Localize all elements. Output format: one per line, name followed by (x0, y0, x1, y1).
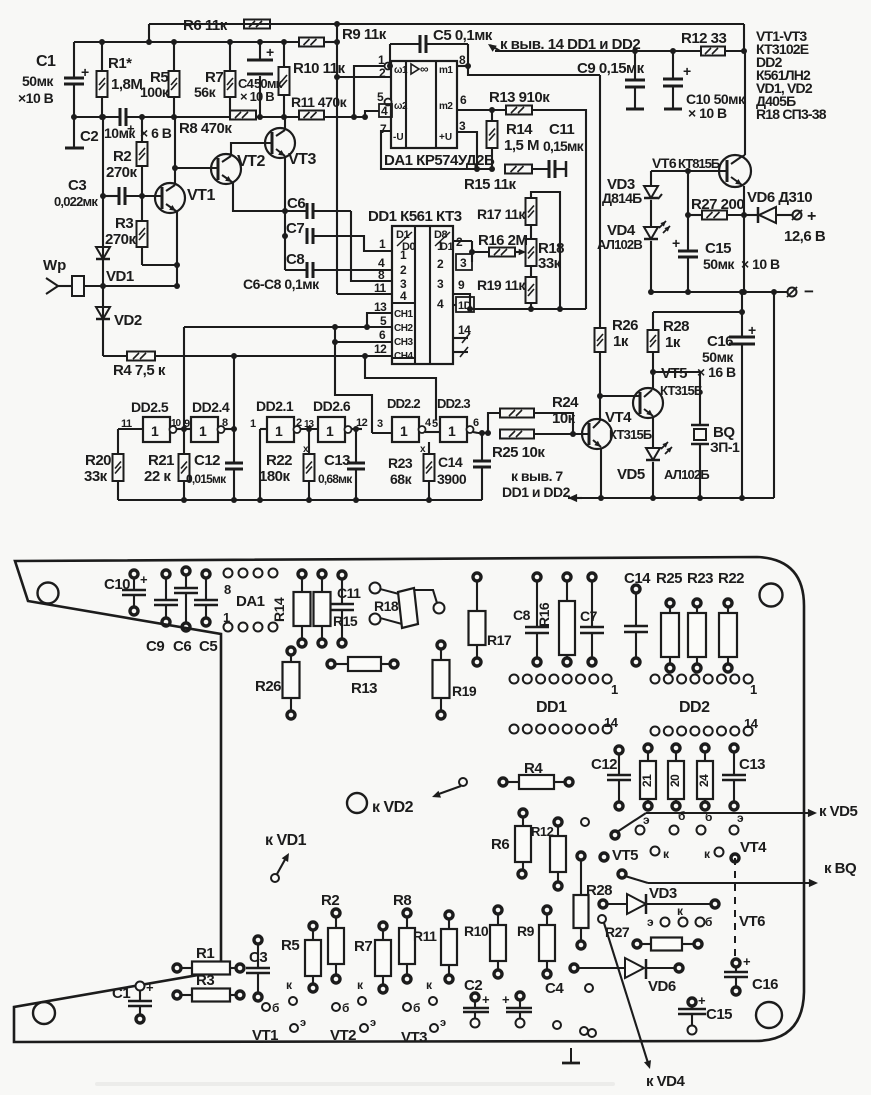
wire pin4 from rail3 (365, 111, 379, 117)
node rail/C12 (231, 497, 237, 503)
mounting hole bottom-right (756, 1002, 782, 1028)
node R28/BQ (650, 369, 656, 375)
node R1 bottom (99, 114, 105, 120)
svg-text:б: б (272, 1001, 279, 1015)
gate DD2.1 (267, 417, 294, 442)
wire gates 2.5-2.4 link (176, 428, 191, 430)
svg-text:0,68мк: 0,68мк (318, 472, 353, 486)
svg-text:R16 2М: R16 2М (478, 232, 528, 249)
pin 7 stub (453, 351, 468, 353)
resistor R28 (652, 312, 654, 330)
wire R17 top loop (531, 192, 560, 309)
node 1D line (467, 306, 473, 312)
wire gates 2.1-2.6 link (300, 428, 318, 430)
node C16 line/R28 (739, 309, 745, 315)
mounting hole top-left (38, 583, 59, 604)
node base/x688 (685, 168, 691, 174)
svg-text:C8: C8 (286, 251, 304, 268)
svg-text:КТ315Б: КТ315Б (609, 427, 652, 442)
node C14 top (479, 430, 485, 436)
node R10 top (281, 39, 287, 45)
svg-text:33к: 33к (538, 255, 562, 272)
svg-text:VD3: VD3 (649, 885, 677, 902)
resistor R24 (500, 409, 534, 418)
resistor R19 (526, 277, 537, 303)
svg-text:3: 3 (459, 119, 466, 133)
svg-text:1к: 1к (665, 334, 681, 351)
svg-text:3: 3 (377, 418, 383, 430)
svg-text:VT1: VT1 (187, 187, 215, 204)
svg-text:6: 6 (460, 93, 467, 107)
svg-text:13: 13 (374, 300, 387, 314)
node input/rail3 (100, 114, 106, 120)
node VT3 emitter/C6 (282, 208, 288, 214)
gate DD2.4 (191, 417, 218, 442)
svg-text:1: 1 (199, 423, 207, 439)
svg-text:к VD4: к VD4 (646, 1073, 686, 1090)
capacitor C14 (481, 433, 483, 461)
svg-text:+: + (146, 980, 154, 995)
svg-text:э: э (370, 1017, 376, 1029)
svg-text:R18 СП3-38: R18 СП3-38 (756, 106, 827, 122)
svg-text:C8: C8 (513, 607, 531, 623)
node DD2.6 out (353, 426, 359, 432)
PCB resistor R14 (298, 570, 306, 578)
svg-text:C12: C12 (194, 452, 220, 469)
svg-text:180к: 180к (259, 468, 291, 485)
node rail/BQ (697, 495, 703, 501)
svg-text:C13: C13 (324, 452, 350, 469)
svg-text:ЗП-1: ЗП-1 (710, 439, 740, 455)
svg-text:DD1: DD1 (536, 699, 567, 716)
svg-text:э: э (643, 813, 650, 827)
svg-text:C2: C2 (464, 977, 482, 994)
node rail1/x337 (334, 21, 340, 27)
capacitor C3 (118, 187, 121, 205)
PCB dashed collector line VT6 (734, 858, 736, 957)
svg-text:C11: C11 (549, 121, 574, 138)
wire C5 to pin8 node (468, 44, 600, 75)
svg-text:C14: C14 (438, 454, 463, 470)
svg-text:R11: R11 (413, 928, 437, 944)
svg-text:+: + (140, 572, 148, 587)
svg-text:1: 1 (250, 418, 256, 430)
svg-text:R15: R15 (333, 613, 358, 629)
node VT4 collector (597, 393, 603, 399)
svg-text:1: 1 (437, 239, 444, 253)
svg-text:б: б (705, 810, 712, 824)
svg-text:C4: C4 (545, 980, 564, 997)
svg-text:R1*: R1* (108, 55, 132, 72)
resistor R10 (279, 67, 290, 95)
wire CN2 line y327 (184, 326, 392, 328)
svg-text:C5 0,1мк: C5 0,1мк (433, 27, 493, 44)
node CN2/x335 (332, 324, 338, 330)
svg-text:к VD2: к VD2 (372, 799, 414, 816)
LED VD5 (646, 448, 660, 460)
svg-text:1к: 1к (613, 333, 629, 350)
svg-text:+: + (748, 322, 756, 338)
svg-text:R8 470к: R8 470к (179, 120, 232, 137)
node R4/x365 (362, 353, 368, 359)
svg-text:к VD5: к VD5 (819, 803, 858, 820)
arrow to pin14 DD1 DD2 (490, 45, 500, 51)
svg-text:8: 8 (378, 268, 385, 282)
svg-text:R11 470к: R11 470к (291, 94, 348, 110)
wire VT1 collector to VT2 base (175, 167, 218, 169)
svg-text:R25: R25 (656, 570, 682, 587)
svg-text:C6: C6 (287, 195, 305, 212)
svg-text:ω1: ω1 (394, 65, 408, 76)
wire input bus x103 (102, 117, 104, 356)
wire minus rail y292 (651, 291, 787, 293)
svg-text:CН4: CН4 (394, 351, 413, 362)
PCB wire to BQ (618, 870, 626, 878)
svg-text:×10 В: ×10 В (18, 90, 54, 106)
DA1 pin5 bubble (385, 99, 392, 106)
DA1 pin1 bubble (385, 63, 392, 70)
svg-text:8: 8 (224, 582, 231, 597)
svg-text:1: 1 (326, 423, 334, 439)
wire x774 down (773, 292, 775, 498)
pin 1D box (456, 297, 474, 312)
svg-text:C15: C15 (706, 1006, 732, 1023)
capacitor C5 (419, 35, 422, 53)
wire R13 to x586 (532, 110, 586, 309)
svg-text:+U: +U (439, 132, 452, 143)
svg-text:DA1: DA1 (236, 593, 265, 610)
PCB IC DD1 pads (510, 675, 519, 684)
node C3 left (100, 193, 106, 199)
svg-text:э: э (300, 1017, 306, 1029)
PCB resistor R28 (577, 852, 585, 860)
svg-text:C6: C6 (173, 638, 191, 655)
node rail/R22 (306, 497, 312, 503)
svg-text:э: э (647, 915, 654, 929)
svg-text:-U: -U (393, 132, 404, 143)
capacitor C15 (678, 250, 698, 253)
node VD4/minus (648, 289, 654, 295)
node emitter to Wp line (174, 283, 180, 289)
svg-text:+: + (698, 993, 706, 1008)
node CN3 (332, 339, 338, 345)
wire DD2.3 output (473, 432, 478, 433)
transistor VT1 (155, 183, 185, 213)
svg-text:22 к: 22 к (144, 468, 171, 485)
capacitor C7 (306, 228, 309, 244)
svg-text:C9: C9 (146, 638, 164, 655)
svg-text:8: 8 (459, 53, 466, 67)
node loop/R19 (528, 306, 534, 312)
node pin3/R15 line (474, 166, 480, 172)
PCB board outline (14, 557, 804, 1042)
svg-text:C15: C15 (705, 240, 731, 257)
terminal +12.6V (793, 211, 802, 220)
PCB resistor R13 (327, 660, 335, 668)
svg-text:R12 33: R12 33 (681, 30, 727, 47)
svg-text:VT1: VT1 (252, 1027, 278, 1044)
resistor R9 (299, 38, 324, 47)
node R24/R25 left (485, 430, 491, 436)
node C5/pin1 (387, 63, 393, 69)
svg-text:m1: m1 (439, 65, 453, 76)
svg-text:R14: R14 (506, 121, 533, 138)
svg-text:VT4: VT4 (740, 839, 767, 856)
svg-text:1,8М: 1,8М (111, 76, 142, 93)
svg-text:1: 1 (611, 682, 618, 697)
svg-text:R27 200: R27 200 (691, 196, 744, 213)
svg-text:R2: R2 (113, 148, 131, 165)
resistor R8 (230, 111, 256, 120)
capacitor C13 (355, 429, 357, 463)
svg-text:R18: R18 (374, 598, 399, 614)
svg-text:1: 1 (400, 423, 408, 439)
node x688/minus (685, 289, 691, 295)
svg-text:× 10 В: × 10 В (240, 89, 274, 104)
wire VT5 base from x600 (600, 395, 640, 397)
svg-text:R21: R21 (148, 452, 174, 469)
svg-text:50мк: 50мк (703, 256, 735, 272)
resistor R14 (487, 121, 498, 148)
svg-text:VD6 Д310: VD6 Д310 (747, 189, 812, 206)
svg-text:m2: m2 (439, 101, 453, 112)
svg-text:9: 9 (458, 278, 465, 292)
svg-text:АЛ102Б: АЛ102Б (664, 467, 709, 482)
node rail/C13 (353, 497, 359, 503)
PCB resistor R15 (318, 570, 326, 578)
PCB diode VD6 (570, 964, 578, 972)
PCB capacitor C15 (688, 998, 696, 1006)
svg-text:к BQ: к BQ (824, 860, 857, 877)
svg-text:C7: C7 (286, 220, 304, 237)
svg-text:4: 4 (400, 289, 407, 303)
transistor VT2 (211, 154, 241, 184)
svg-text:+: + (743, 954, 751, 969)
svg-text:э: э (440, 1017, 446, 1029)
node R1 top (99, 39, 105, 45)
PCB stray pad (585, 984, 593, 992)
svg-text:VD6: VD6 (648, 978, 676, 995)
svg-text:R26: R26 (612, 317, 638, 334)
svg-text:3: 3 (460, 256, 467, 270)
capacitor C6 (306, 203, 309, 219)
svg-text:DD2.1: DD2.1 (256, 398, 294, 414)
capacitor C10 (672, 51, 674, 79)
wire x184 up from gates (183, 327, 185, 429)
resistor R13 (506, 106, 532, 115)
svg-text:R17 11к: R17 11к (477, 206, 526, 222)
svg-text:12: 12 (374, 342, 387, 356)
svg-text:33к: 33к (84, 468, 108, 485)
svg-text:R13: R13 (351, 680, 377, 697)
resistor R25 (500, 430, 534, 439)
svg-text:R10: R10 (464, 923, 489, 939)
wire gates 2.2-2.3 link (425, 431, 440, 433)
svg-text:R23: R23 (388, 455, 413, 471)
wire x234 gate to R4 line (233, 356, 235, 429)
svg-text:+: + (482, 992, 490, 1007)
svg-text:R8: R8 (393, 892, 411, 909)
node rail/R21 (181, 497, 187, 503)
resistor R1 (97, 71, 108, 97)
node pin8 (465, 63, 471, 69)
node R3/emitter (174, 262, 180, 268)
node R12 out (741, 48, 747, 54)
PCB IC DA1 pads (224, 569, 233, 578)
resistor R23 (428, 442, 430, 454)
wire VT6 base (651, 170, 727, 172)
node C9 (632, 48, 638, 54)
svg-text:+: + (266, 44, 274, 60)
PCB trimmer R18 (370, 583, 381, 594)
svg-text:VT5: VT5 (661, 365, 687, 382)
node rail/VD5 (650, 495, 656, 501)
PCB IC DD2 pads (651, 675, 660, 684)
svg-text:20: 20 (668, 774, 682, 787)
svg-text:DD1 и DD2: DD1 и DD2 (502, 484, 571, 500)
PCB resistor R26 (287, 647, 295, 655)
node x774/minus (771, 289, 777, 295)
svg-text:C3: C3 (68, 177, 86, 194)
PCB resistor R16 (563, 573, 571, 581)
node C3/R2/R3 (139, 193, 145, 199)
svg-text:Wp: Wp (43, 257, 66, 274)
svg-text:R14: R14 (271, 597, 287, 622)
svg-text:1: 1 (750, 682, 757, 697)
node R5 bottom (171, 114, 177, 120)
wire DD2.4 output (224, 428, 234, 430)
DA1 pin4 box (379, 104, 392, 117)
svg-text:VT6: VT6 (652, 155, 677, 171)
PCB capacitor C5 (202, 570, 210, 578)
diode VD2 (96, 307, 110, 319)
node gates link/R21 (181, 426, 187, 432)
svg-text:CН2: CН2 (394, 323, 413, 334)
resistor R20 (117, 429, 119, 454)
svg-text:R3: R3 (115, 215, 133, 232)
node C4 top (257, 39, 263, 45)
mounting hole top-right (760, 584, 783, 607)
svg-text:14: 14 (604, 715, 619, 730)
wire VT4 base (534, 433, 589, 435)
svg-text:б: б (678, 809, 685, 823)
svg-text:0,15мк: 0,15мк (543, 138, 585, 154)
svg-text:2: 2 (296, 417, 302, 429)
svg-text:R24: R24 (552, 394, 579, 411)
crystal BQ (653, 372, 700, 425)
svg-text:Д814Б: Д814Б (602, 190, 642, 206)
svg-text:100к: 100к (140, 84, 170, 100)
IC DA1 box (391, 61, 457, 148)
svg-text:КТ315Б: КТ315Б (660, 383, 703, 398)
svg-text:R1: R1 (196, 945, 214, 962)
svg-text:R7: R7 (354, 938, 372, 955)
PCB diagonal wire to VD4 (598, 915, 606, 923)
node rail/R23 (426, 497, 432, 503)
node R13/R14 (489, 107, 495, 113)
svg-text:DD2.2: DD2.2 (387, 396, 420, 411)
svg-text:5: 5 (380, 314, 387, 328)
wire R28 top y312 (653, 311, 742, 313)
node C10 (670, 48, 676, 54)
PCB resistor R17 (473, 573, 481, 581)
capacitor C1 (73, 42, 75, 78)
svg-text:10: 10 (171, 418, 182, 429)
resistor R17 (526, 198, 537, 225)
PCB VT5 label and base pad (600, 853, 608, 861)
node R5 top (171, 39, 177, 45)
svg-text:4: 4 (437, 297, 444, 311)
svg-text:1: 1 (379, 237, 386, 251)
wire DD2.6 output (351, 428, 362, 430)
node R27 left (685, 212, 691, 218)
svg-text:× 16 В: × 16 В (697, 364, 736, 380)
svg-text:R17: R17 (487, 632, 512, 648)
wire rail1-rail2 link (148, 24, 150, 42)
svg-text:R26: R26 (255, 678, 281, 695)
resistor R27 (702, 211, 727, 220)
svg-text:R9 11к: R9 11к (342, 26, 387, 43)
node R24 right (570, 431, 576, 437)
svg-text:R13 910к: R13 910к (489, 89, 550, 106)
resistor R3 (137, 221, 148, 247)
resistor R16 (489, 248, 515, 257)
PCB ground pads (553, 1021, 561, 1029)
capacitor C11 (532, 168, 549, 170)
svg-text:1: 1 (223, 610, 230, 625)
capacitor C2 (119, 108, 122, 126)
svg-text:12,6 В: 12,6 В (784, 228, 826, 245)
svg-text:VD5: VD5 (617, 466, 645, 483)
node rail2 left (146, 39, 152, 45)
svg-text:∞: ∞ (420, 62, 428, 76)
capacitor C16 (729, 336, 755, 339)
svg-text:АЛ102В: АЛ102В (597, 237, 642, 252)
svg-text:R4 7,5 к: R4 7,5 к (113, 362, 166, 379)
wire rail3 y117 (74, 116, 120, 118)
svg-text:R5: R5 (281, 937, 299, 954)
svg-text:14: 14 (744, 716, 759, 731)
svg-text:1: 1 (400, 248, 407, 262)
PCB arrow VD2 (459, 778, 467, 786)
svg-text:R6: R6 (491, 836, 509, 853)
IC DD1 box (392, 226, 453, 364)
PCB resistor R19 (437, 641, 445, 649)
svg-text:VT2: VT2 (330, 1027, 356, 1044)
svg-text:R9: R9 (517, 923, 535, 939)
svg-text:C1: C1 (112, 985, 130, 1002)
svg-text:270к: 270к (105, 231, 137, 248)
svg-text:+: + (81, 64, 89, 80)
svg-text:+: + (807, 208, 816, 225)
svg-text:× 6 В: × 6 В (140, 125, 172, 141)
svg-text:C13: C13 (739, 756, 765, 773)
svg-text:11: 11 (374, 281, 387, 295)
node VT6e/minus (741, 289, 747, 295)
svg-text:68к: 68к (390, 471, 413, 487)
svg-text:R22: R22 (266, 452, 292, 469)
svg-text:VT5: VT5 (612, 847, 638, 864)
wire x688 with C15 (687, 171, 689, 251)
svg-text:C16: C16 (752, 976, 778, 993)
svg-text:C11: C11 (337, 585, 361, 601)
wire CN1 jog (367, 313, 392, 327)
svg-text:VT6: VT6 (739, 913, 765, 930)
resistor R21 (183, 429, 185, 454)
resistor R12 (701, 47, 725, 56)
node DD2.4 out/x234 (231, 426, 237, 432)
wire pin3 input (372, 432, 392, 434)
